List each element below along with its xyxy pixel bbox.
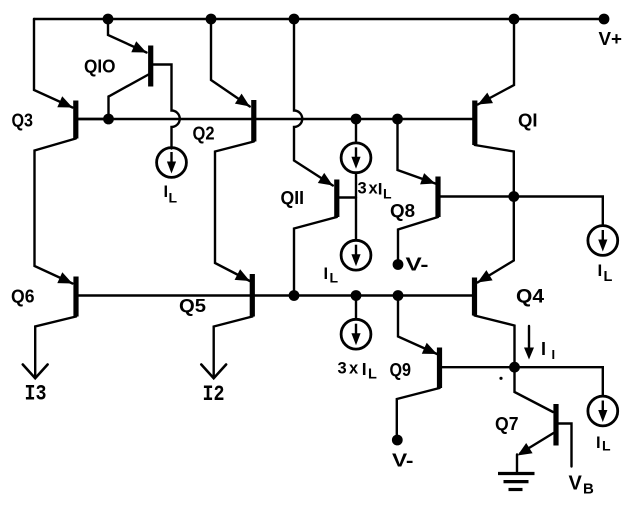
wire V+ supply rail <box>34 18 604 20</box>
label I1 <box>541 339 555 362</box>
current source IL under Q10 <box>157 148 187 178</box>
node top-rail junction A (Q10 emitter tap) <box>103 14 114 25</box>
node V- terminal lower <box>392 435 403 446</box>
label Q6 <box>11 286 35 307</box>
wire node down to Q7 collector <box>515 367 554 412</box>
svg-text:I: I <box>541 339 546 359</box>
label Q10 <box>84 56 116 77</box>
node Q3/Q10 base junction <box>103 114 114 125</box>
wire Q5 collector to I2 output <box>214 317 253 378</box>
wire Q10 emitter from top rail <box>108 19 147 53</box>
wire Q9 collector to V- terminal <box>397 388 440 435</box>
wire Q11 collector down to mid rail <box>294 217 337 296</box>
label Q9 <box>390 359 412 380</box>
label IL bottom right <box>596 434 611 454</box>
svg-text:I: I <box>378 180 383 199</box>
current source IL right middle <box>588 226 618 256</box>
label VB <box>569 473 595 498</box>
svg-text:B: B <box>583 481 594 498</box>
node mid-rail tap for 3xIL lower <box>351 290 362 301</box>
label V- upper <box>406 254 429 275</box>
node top-rail junction D (Q1 emitter tap) <box>509 14 520 25</box>
svg-text:L: L <box>602 438 611 454</box>
wire Q7 emitter to ground <box>517 433 554 472</box>
svg-text:QI: QI <box>518 110 538 131</box>
svg-text:I: I <box>596 434 601 452</box>
node top-rail junction B (Q2 emitter tap) <box>206 14 217 25</box>
svg-text:Q8: Q8 <box>390 200 415 221</box>
svg-text:L: L <box>169 190 178 206</box>
transistor Q1 base bar <box>472 101 477 146</box>
wire Q1 emitter from top rail <box>478 19 514 105</box>
label Q7 <box>495 413 519 434</box>
stray mark <box>499 377 502 380</box>
arrowhead I3 output <box>23 365 48 379</box>
svg-text:Q5: Q5 <box>179 295 206 316</box>
label Q2 <box>193 123 215 144</box>
transistor Q6 emitter arrow <box>57 272 72 283</box>
label V+ <box>599 28 623 49</box>
svg-text:L: L <box>368 367 377 383</box>
svg-text:Q9: Q9 <box>390 359 412 380</box>
node base-rail tap for 3xIL <box>351 114 362 125</box>
current source IL bottom right <box>588 396 618 426</box>
svg-text:Q3: Q3 <box>12 110 34 131</box>
label Q11 <box>281 187 305 208</box>
wire Q8 collector to V- terminal <box>398 217 438 260</box>
transistor Q5 base bar <box>250 274 255 317</box>
svg-text:Q7: Q7 <box>495 413 519 434</box>
svg-text:I: I <box>324 265 329 283</box>
node Q4/Q9/Q7 junction <box>509 362 520 373</box>
wire Q3 base to node <box>78 118 109 120</box>
label IL under Q10 <box>164 183 178 206</box>
current source IL under Q11 <box>341 240 371 270</box>
transistor Q9 emitter arrow <box>422 343 437 354</box>
svg-text:3: 3 <box>338 360 347 378</box>
transistor Q2 base bar <box>251 100 256 142</box>
wire left rail drop to Q3 emitter <box>34 19 73 108</box>
svg-text:I: I <box>164 183 169 201</box>
node Q1/Q8 junction <box>508 191 519 202</box>
label Q5 <box>179 295 206 316</box>
wire Q2 emitter from top rail <box>211 19 250 107</box>
wire Q11 base to current sources <box>339 196 356 198</box>
transistor Q5 emitter arrow <box>235 269 250 281</box>
label I3 <box>25 382 47 407</box>
label I2 <box>203 382 225 407</box>
wire 3xIL source to Q11 base junction to IL source <box>355 173 357 240</box>
transistor Q11 base bar <box>334 180 339 218</box>
svg-text:V-: V- <box>406 254 429 275</box>
transistor Q3 emitter arrow <box>57 96 72 107</box>
svg-text:I2: I2 <box>203 382 225 407</box>
label 3xIL lower <box>338 359 378 383</box>
ground symbol <box>498 474 535 490</box>
wire common base rail Q3-Q2-Q1 <box>78 118 473 120</box>
svg-text:Q6: Q6 <box>11 286 35 307</box>
arrowhead I2 output <box>201 365 226 379</box>
wire Q3 collector down to Q6 emitter <box>35 139 76 284</box>
wire Q8 emitter drop <box>398 119 436 184</box>
svg-text:I3: I3 <box>25 382 47 407</box>
svg-text:Q4: Q4 <box>516 287 544 308</box>
wire Q2 collector down to Q5 emitter <box>215 142 254 282</box>
label Q1 <box>518 110 538 131</box>
transistor Q7 base bar <box>553 404 558 446</box>
transistor Q6 base bar <box>73 277 78 317</box>
node top-rail junction C (Q11 emitter tap) <box>289 14 300 25</box>
wire Q1 collector down to node <box>475 145 514 197</box>
transistor Q8 base bar <box>435 177 440 218</box>
transistor Q10 base bar <box>148 46 153 87</box>
wire Q7 base to VB <box>559 424 572 467</box>
svg-text:I: I <box>598 261 603 280</box>
wire Q10 base to node <box>109 75 149 120</box>
svg-text:L: L <box>604 269 613 285</box>
svg-text:3: 3 <box>358 180 367 198</box>
wire Q11 emitter from top rail with crossover hop <box>294 19 333 186</box>
label 3xIL upper <box>358 180 393 202</box>
current source 3xIL upper <box>341 143 371 173</box>
svg-text:V+: V+ <box>599 28 623 49</box>
node Q11 collector junction <box>289 290 300 301</box>
node V- terminal upper <box>393 259 404 270</box>
label IL right middle <box>598 261 613 285</box>
svg-text:Q2: Q2 <box>193 123 215 144</box>
label V- lower <box>392 450 414 471</box>
transistor Q7 emitter arrow <box>518 443 533 456</box>
transistor Q11 emitter arrow <box>318 173 333 186</box>
svg-text:V-: V- <box>392 450 414 471</box>
label Q8 <box>390 200 415 221</box>
transistor Q8 emitter arrow <box>420 173 435 184</box>
svg-text:I: I <box>362 359 367 379</box>
transistor Q4 base bar <box>472 278 477 316</box>
svg-text:L: L <box>330 270 339 286</box>
label Q4 <box>516 287 544 308</box>
transistor Q2 emitter arrow <box>235 94 250 107</box>
node mid-rail tap for Q9 <box>393 290 404 301</box>
wire mid rail to 3xIL lower source <box>355 296 357 320</box>
current source 3xIL lower <box>341 319 371 349</box>
label IL under Q11 <box>324 265 339 286</box>
wire Q9 base to node <box>442 366 515 368</box>
wire node to bottom-right IL source <box>515 367 603 396</box>
wire Q4 collector down to node <box>475 316 515 368</box>
transistor Q4 emitter arrow <box>478 270 493 282</box>
svg-text:x: x <box>349 360 359 378</box>
wire Q10 collector with crossover hop <box>153 65 180 149</box>
node V+ terminal <box>599 14 610 25</box>
transistor Q9 base bar <box>437 348 442 389</box>
svg-text:QIO: QIO <box>84 56 116 77</box>
transistor Q1 emitter arrow <box>478 93 493 105</box>
wire Q8 base to node <box>440 195 514 197</box>
svg-text:V: V <box>569 473 583 495</box>
transistor Q10 emitter arrow <box>131 41 146 52</box>
wire Q9 emitter drop <box>398 296 437 355</box>
svg-text:QII: QII <box>281 187 305 208</box>
wire Q6 collector to I3 output <box>35 317 76 378</box>
wire rail to 3xIL source <box>355 119 357 143</box>
label Q3 <box>12 110 34 131</box>
wire node to right IL source <box>514 197 603 226</box>
transistor Q3 base bar <box>73 101 78 139</box>
annotation arrow I1 <box>524 326 534 360</box>
wire common base rail Q6-Q5-Q4 <box>79 294 473 296</box>
wire node down to Q4 emitter <box>478 197 514 283</box>
svg-text:I: I <box>552 347 556 362</box>
node base-rail tap for Q8 <box>392 114 403 125</box>
